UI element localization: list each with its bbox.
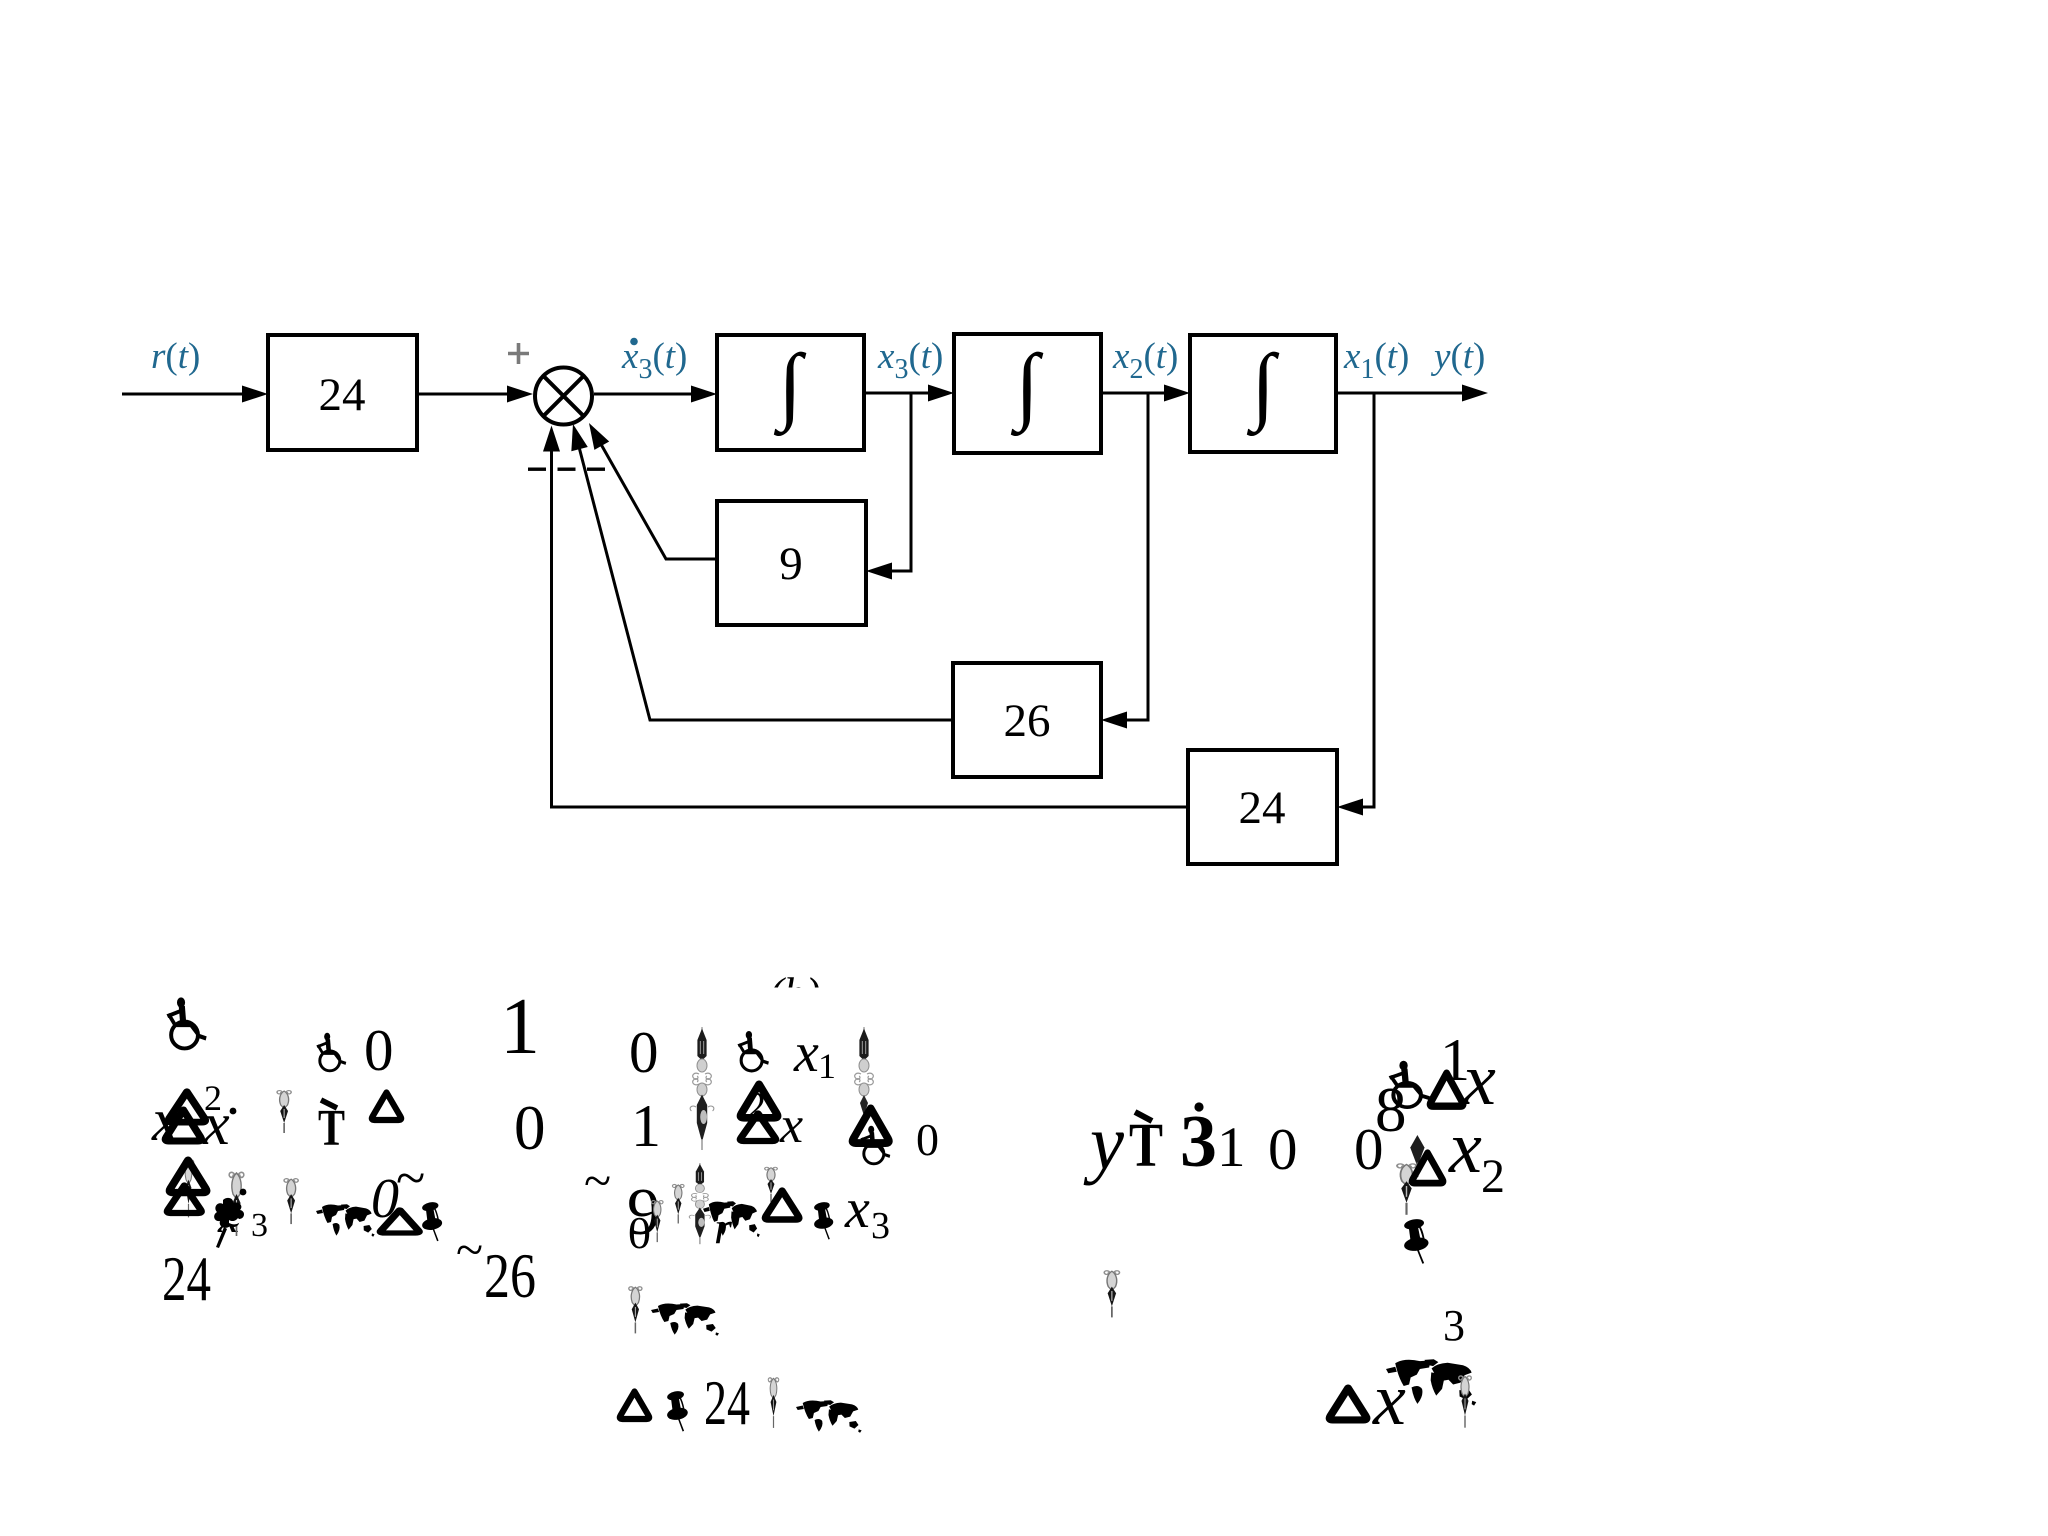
svg-text:26: 26	[1004, 695, 1051, 747]
mid row1 wheelchair	[738, 1031, 769, 1071]
svg-text:1: 1	[1217, 1116, 1246, 1179]
wire summer to integrator1, node xdot3	[594, 393, 695, 396]
row3 pushpin	[421, 1201, 443, 1241]
wire branch x1 down to block 24	[1359, 393, 1374, 807]
svg-text:x1(t): x1(t)	[1343, 336, 1409, 385]
svg-text:x: x	[1448, 1107, 1482, 1189]
svg-text:y: y	[1083, 1099, 1124, 1186]
wire block9 to summer	[600, 443, 717, 560]
right pushpin	[1403, 1218, 1430, 1264]
svg-text:3: 3	[871, 1205, 890, 1247]
wire block24 to summer	[417, 393, 511, 396]
svg-text:0: 0	[629, 1019, 659, 1085]
feedback block 9	[717, 501, 866, 625]
svg-text:0: 0	[916, 1114, 939, 1165]
svg-text:26: 26	[484, 1241, 536, 1311]
svg-text:0: 0	[371, 1168, 399, 1230]
mid pens row3	[651, 1201, 663, 1243]
integrator U3	[1190, 335, 1336, 452]
svg-text:r(t): r(t)	[151, 336, 200, 377]
svg-text:~: ~	[584, 1152, 611, 1208]
row2 pen	[277, 1091, 291, 1133]
svg-text:1: 1	[631, 1093, 661, 1159]
feedback block 26	[953, 663, 1101, 777]
svg-text:T: T	[1129, 1112, 1163, 1180]
plus sign	[508, 343, 529, 364]
svg-text:3: 3	[1443, 1301, 1465, 1350]
svg-text:24: 24	[704, 1368, 750, 1438]
svg-text:9: 9	[779, 538, 803, 590]
left matrix row1: wheelchair glyph	[167, 997, 207, 1048]
wire branch x2 down to block 26	[1123, 393, 1148, 720]
svg-text:~: ~	[396, 1148, 425, 1208]
svg-text:1: 1	[500, 983, 540, 1071]
wire int2 to int3, node x2	[1101, 392, 1168, 395]
svg-text:24: 24	[319, 369, 366, 421]
svg-text:0: 0	[628, 1207, 651, 1258]
svg-text:0: 0	[514, 1093, 546, 1163]
integrator U1	[717, 335, 864, 450]
row2 right triangle + wheelchair + 0	[853, 1108, 889, 1143]
svg-text:24: 24	[162, 1244, 211, 1314]
svg-text:(b): (b)	[769, 969, 820, 1018]
row3 world map	[316, 1204, 375, 1237]
row2 triangle	[372, 1093, 401, 1121]
mid pushpin	[813, 1201, 834, 1240]
right wheelchair	[1389, 1061, 1430, 1107]
B vector pen + map	[629, 1287, 642, 1334]
svg-text:~: ~	[456, 1221, 483, 1277]
svg-text:0: 0	[364, 1017, 394, 1083]
minus dashes	[528, 468, 546, 471]
right bottom triangle x map pen	[1330, 1388, 1367, 1420]
svg-text:1: 1	[818, 1046, 836, 1086]
gain block 24 (input)	[268, 335, 417, 450]
summing junction	[535, 368, 592, 425]
node label xdot3(t)	[630, 338, 638, 346]
mid black pen over triangle	[765, 1167, 778, 1202]
svg-text:x2(t): x2(t)	[1112, 336, 1178, 385]
mid map	[703, 1201, 760, 1237]
left lone pen	[1104, 1271, 1119, 1318]
svg-text:x: x	[844, 1178, 870, 1240]
svg-text:0: 0	[1268, 1116, 1298, 1182]
svg-text:x: x	[779, 1097, 803, 1154]
svg-text:x: x	[793, 1022, 819, 1084]
row3 pen	[284, 1179, 298, 1224]
svg-text:x: x	[202, 1091, 230, 1157]
svg-text:3: 3	[251, 1207, 268, 1244]
svg-text:x3(t): x3(t)	[877, 336, 943, 385]
integrator U2	[954, 334, 1101, 453]
svg-text:y(t): y(t)	[1430, 336, 1485, 377]
svg-text:T: T	[318, 1100, 345, 1157]
svg-text:3: 3	[1180, 1101, 1217, 1183]
mid pen ornament column right	[855, 1027, 874, 1116]
svg-text:x3(t): x3(t)	[621, 336, 687, 385]
wire block24 to summer	[552, 447, 1189, 807]
feedback block 24	[1188, 750, 1337, 864]
B bottom row triangle pin 24 pen map	[620, 1392, 649, 1420]
row2 mid triangles-x	[741, 1084, 778, 1118]
wire int1 to int2, node x3	[864, 392, 932, 395]
svg-text:2: 2	[1481, 1150, 1505, 1203]
svg-text:24: 24	[1239, 782, 1286, 834]
wire branch x3 down to block 9	[888, 393, 911, 571]
wire input r(t)	[122, 393, 246, 396]
row1 wheelchair 2	[316, 1033, 346, 1071]
caption (b) top sliver	[769, 969, 820, 1018]
row3 left triangles + pen	[183, 1160, 194, 1217]
mid pen ornament column left	[690, 1027, 714, 1150]
right pen + triangle + x2	[1410, 1135, 1424, 1177]
wire block26 to summer	[579, 445, 954, 720]
wire int3 to output y(t), node x1	[1336, 392, 1466, 395]
